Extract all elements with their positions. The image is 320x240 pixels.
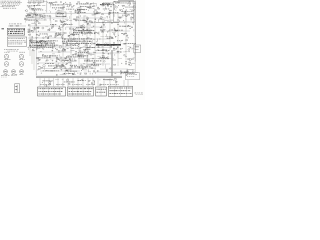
- wire: vertical trunk x30: [29, 24, 31, 56]
- wire: [37, 69, 39, 71]
- transistor Q29: [43, 37, 45, 39]
- label: 12V supply: [135, 93, 143, 95]
- junction node: [82, 28, 85, 31]
- value label: [75, 10, 77, 12]
- wire: [44, 67, 46, 70]
- junction node: [35, 37, 38, 40]
- resistor R2: [51, 2, 53, 5]
- reference label row: [109, 29, 116, 32]
- diode D2: [114, 1, 116, 2]
- wire: [62, 83, 64, 85]
- capacitor C48: [55, 61, 58, 62]
- reference label row: [104, 44, 115, 47]
- transistor Q51: [114, 78, 116, 80]
- wire: [58, 12, 61, 14]
- table: parts legend: [7, 37, 26, 46]
- wire: [36, 46, 38, 50]
- wire: [31, 37, 33, 39]
- junction node: [63, 60, 66, 63]
- resistor R22: [102, 13, 104, 16]
- transistor pinout Q3 (bottom view): [4, 59, 10, 66]
- wire: [66, 5, 68, 7]
- transistor Q17: [80, 26, 82, 28]
- wire: [27, 16, 31, 18]
- reference label row: [125, 42, 136, 45]
- resistor R63: [46, 59, 48, 62]
- wire: [32, 14, 34, 18]
- value label: [36, 21, 39, 23]
- value label: [128, 51, 130, 54]
- resistor R45: [102, 31, 104, 34]
- capacitor C26: [101, 30, 104, 31]
- label row: power section: [115, 2, 131, 5]
- value label: [55, 35, 58, 37]
- wire: [101, 46, 103, 48]
- wire: [131, 48, 133, 50]
- wire: [41, 15, 43, 17]
- resistor R59: [87, 58, 89, 61]
- wire: [95, 4, 97, 6]
- wire: [32, 39, 34, 42]
- junction node: [120, 73, 123, 76]
- wire: [84, 58, 88, 60]
- output terminal block: [134, 45, 141, 53]
- junction node: [122, 19, 125, 22]
- transistor Q34: [98, 44, 100, 46]
- transistor Q2: [121, 10, 123, 12]
- value label: [84, 19, 86, 22]
- junction node: [112, 79, 115, 82]
- wire: [133, 2, 136, 4]
- reference label row: [61, 23, 73, 26]
- wire: [66, 26, 106, 28]
- capacitor C4: [123, 5, 126, 6]
- component designator row: [52, 7, 63, 10]
- component designator row: [74, 66, 91, 69]
- wire: [49, 45, 51, 47]
- reference label row: [103, 2, 113, 5]
- reference label row: [100, 56, 108, 59]
- wire: [78, 53, 80, 56]
- switch box S1: [28, 14, 36, 20]
- wire: [92, 73, 94, 75]
- wire: [30, 31, 56, 33]
- wire: [78, 7, 82, 9]
- capacitor C10: [86, 19, 89, 20]
- component designator row: [29, 40, 58, 43]
- wire: [45, 60, 47, 62]
- diode D3: [129, 2, 131, 3]
- wire: [70, 3, 72, 5]
- wire: [99, 79, 101, 81]
- wire: [41, 39, 44, 41]
- transistor pinout Q2 (bottom view): [19, 52, 25, 59]
- transistor Q16: [82, 25, 84, 27]
- resistor R201: [33, 2, 35, 3]
- capacitor C6: [110, 6, 113, 7]
- resistor R30: [87, 17, 89, 20]
- resistor R67: [128, 58, 130, 61]
- value label: [111, 37, 114, 39]
- wire: [80, 47, 82, 49]
- wire: net to output: [108, 72, 138, 74]
- resistor R28: [118, 16, 120, 19]
- junction node: [82, 8, 85, 11]
- capacitor C8: [29, 15, 32, 16]
- transistor Q4: [38, 4, 40, 6]
- resistor R51: [87, 37, 89, 40]
- wire: [113, 48, 115, 51]
- junction node: [80, 64, 83, 67]
- value label: [71, 66, 73, 68]
- reference label row: [72, 40, 78, 43]
- capacitor C12: [94, 19, 97, 20]
- wire: [104, 64, 106, 68]
- wire: [50, 54, 52, 56]
- resistor R62: [64, 57, 66, 60]
- wire: [61, 45, 65, 47]
- wire: [125, 18, 127, 22]
- wire: [70, 46, 72, 48]
- value label: [108, 13, 111, 15]
- wire: [58, 10, 62, 12]
- value label: [40, 50, 42, 53]
- junction node: [113, 8, 116, 11]
- wire: [100, 35, 104, 37]
- value label: [69, 58, 71, 60]
- component designator row: [62, 40, 91, 43]
- wire: [123, 51, 127, 53]
- diode D27: [61, 67, 63, 68]
- diode D14: [114, 28, 116, 29]
- wire: [132, 2, 134, 4]
- component designator row: [73, 29, 94, 32]
- wire: [32, 35, 34, 37]
- value label: [103, 29, 105, 31]
- diode D13: [127, 26, 129, 27]
- resistor R8: [93, 5, 95, 8]
- resistor R36: [71, 33, 73, 36]
- wire: [68, 37, 70, 39]
- wire: [94, 51, 96, 53]
- value label: [99, 11, 101, 14]
- value label: [66, 44, 68, 46]
- wire: [83, 46, 87, 48]
- capacitor C39: [77, 44, 80, 45]
- wire: [60, 73, 63, 75]
- transistor Q43: [69, 68, 71, 70]
- value label: [80, 73, 82, 75]
- junction node: [82, 19, 85, 22]
- wire: [62, 78, 64, 86]
- value label: [60, 20, 63, 22]
- wire: [78, 58, 114, 60]
- transistor Q6: [77, 9, 79, 11]
- reference label row: [125, 6, 135, 9]
- junction node: [106, 56, 109, 59]
- transistor pinout Q1 (bottom view): [4, 52, 9, 59]
- junction node: [64, 38, 67, 41]
- wire: [74, 59, 77, 61]
- reference label row: [77, 8, 87, 11]
- junction node: [37, 30, 40, 33]
- wire: [133, 57, 135, 59]
- value label: [66, 19, 68, 22]
- resistor R31: [100, 18, 102, 21]
- wire: [70, 50, 74, 52]
- capacitor C15: [93, 33, 96, 34]
- junction node: [127, 24, 130, 27]
- transistor Q42: [124, 54, 126, 56]
- transistor pinout Q6 (bottom view): [12, 70, 18, 75]
- diode D16: [66, 43, 68, 44]
- diode D23: [79, 67, 81, 68]
- transistor Q24: [71, 39, 73, 41]
- wire: [93, 80, 95, 82]
- resistor R60: [57, 58, 59, 61]
- value label: [82, 68, 84, 70]
- wire: vertical trunk x36: [35, 13, 37, 76]
- wire: [58, 9, 60, 12]
- wire: [62, 73, 66, 75]
- value label: [62, 65, 64, 67]
- capacitor C65: [45, 85, 48, 86]
- wire: [79, 15, 81, 17]
- wire: [65, 27, 67, 30]
- value label: [63, 48, 65, 50]
- wire: [39, 15, 41, 19]
- wire: [82, 34, 84, 36]
- resistor R39: [48, 29, 50, 32]
- value label: [130, 19, 132, 22]
- wire: vertical trunk x47: [46, 1, 48, 13]
- capacitor C62: [119, 70, 122, 71]
- wire: [80, 47, 110, 49]
- component designator row: [50, 4, 64, 7]
- wire: [92, 79, 94, 81]
- reference label row: [34, 4, 41, 7]
- wire: [103, 20, 105, 23]
- resistor R32: [119, 16, 121, 19]
- junction node: [117, 4, 120, 7]
- reference label row: [34, 44, 42, 47]
- value label: [61, 21, 64, 23]
- wire: [77, 78, 79, 86]
- wire: [89, 41, 92, 43]
- reference label row: [98, 49, 109, 52]
- reference label row: [87, 46, 95, 49]
- capacitor C60: [125, 63, 128, 64]
- capacitor C63: [125, 74, 128, 75]
- wire: [72, 78, 74, 86]
- diode D30: [119, 10, 121, 11]
- wire: [33, 50, 35, 70]
- value label: [99, 38, 101, 41]
- reference label row: [37, 40, 46, 43]
- capacitor C18: [62, 25, 65, 26]
- value label: [27, 14, 29, 17]
- reference label row: [59, 59, 64, 62]
- value label: [131, 16, 133, 19]
- wire: [44, 10, 46, 11]
- reference label row: [62, 59, 71, 62]
- connector block CN3: [96, 87, 107, 96]
- wire: [31, 50, 33, 64]
- reference label row: [26, 19, 37, 22]
- transistor Q21: [35, 24, 37, 26]
- wire: [86, 61, 90, 63]
- resistor R5: [78, 1, 80, 4]
- diode D7: [26, 16, 28, 17]
- transistor Q1: [60, 1, 61, 2]
- wire: [49, 17, 51, 21]
- wire: [92, 43, 95, 45]
- resistor R10: [60, 7, 62, 10]
- wire: power box top rail: [118, 0, 134, 2]
- wire: [40, 68, 96, 70]
- resistor R24: [94, 13, 96, 16]
- junction node: [120, 62, 123, 65]
- wire: [88, 24, 91, 26]
- value label: [115, 72, 117, 75]
- wire: [134, 36, 137, 38]
- junction node: [83, 40, 86, 43]
- wire: [80, 63, 110, 65]
- reference label row: [28, 16, 33, 19]
- capacitor C57: [105, 69, 108, 70]
- wire: [38, 51, 72, 53]
- wire: [134, 43, 135, 45]
- connector pin label row: [56, 83, 65, 86]
- wire: [85, 3, 88, 5]
- reference label row: [107, 37, 114, 40]
- value label: [107, 31, 108, 34]
- diode D6: [33, 15, 35, 16]
- wire: [42, 5, 46, 7]
- wire: [44, 40, 47, 42]
- wire: [76, 9, 78, 12]
- capacitor C51: [56, 57, 59, 58]
- capacitor C53: [107, 53, 110, 54]
- wire: [133, 29, 135, 31]
- junction node: [96, 42, 99, 45]
- capacitor C64: [128, 64, 131, 65]
- wire: [61, 11, 63, 13]
- resistor R48: [45, 42, 47, 45]
- capacitor C7: [129, 3, 132, 4]
- wire: vertical trunk x79: [78, 14, 80, 69]
- wire: [118, 35, 120, 36]
- wire: [82, 3, 85, 5]
- transistor Q53: [115, 6, 117, 8]
- reference label row: [93, 11, 98, 14]
- capacitor C47: [87, 51, 90, 52]
- wire: right inner vertical: [132, 1, 134, 25]
- capacitor C3: [78, 11, 81, 12]
- component designator row: [80, 5, 94, 8]
- wire: [104, 10, 106, 11]
- wire: [132, 73, 135, 75]
- wire: [120, 17, 123, 19]
- value label: [73, 28, 76, 30]
- value label: [96, 41, 98, 44]
- wire: [110, 19, 114, 21]
- transistor Q33: [73, 38, 75, 40]
- wire: [83, 9, 85, 11]
- value label: [128, 13, 130, 16]
- transistor Q9: [34, 22, 36, 24]
- wire: [70, 38, 110, 40]
- wire: [130, 8, 132, 10]
- wire: [87, 64, 91, 66]
- wire: [31, 15, 35, 17]
- resistor R42: [84, 32, 86, 35]
- reference label row: [56, 15, 66, 18]
- wire: [90, 53, 92, 56]
- reference label row: [72, 54, 82, 57]
- reference label row: [100, 4, 109, 7]
- wire: [28, 48, 30, 50]
- resistor R15: [32, 9, 34, 12]
- resistor R52: [30, 45, 32, 48]
- wire: [82, 38, 85, 40]
- wire: [35, 36, 38, 38]
- junction node: [61, 34, 64, 37]
- value label: [34, 12, 36, 14]
- resistor R6: [28, 6, 30, 9]
- value label: [69, 3, 70, 5]
- junction node: [80, 69, 83, 72]
- wire: [87, 69, 89, 72]
- transistor Q8: [62, 8, 64, 10]
- resistor R41: [90, 29, 92, 32]
- capacitor C28: [131, 27, 134, 28]
- transistor Q36: [105, 43, 107, 45]
- junction node: [36, 13, 39, 16]
- resistor R17: [94, 9, 96, 12]
- wire: [105, 6, 107, 9]
- reference label row: [75, 11, 86, 14]
- connector block CN4 (power): [109, 86, 133, 96]
- reference label row: [64, 81, 75, 84]
- wire: [49, 46, 51, 48]
- wire: [40, 70, 80, 72]
- capacitor C22: [56, 35, 59, 36]
- capacitor C5: [97, 7, 100, 8]
- reference label row: [122, 10, 132, 13]
- wire: [73, 40, 77, 42]
- transistor Q30: [52, 46, 54, 48]
- transistor Q37: [113, 49, 115, 51]
- resistor R202: [38, 2, 40, 3]
- transistor Q11: [75, 19, 77, 21]
- value label: [28, 31, 30, 34]
- reference label row: [105, 79, 112, 82]
- value label: [55, 8, 56, 11]
- wire: [88, 47, 90, 49]
- wire: [65, 43, 67, 47]
- resistor R18: [55, 20, 57, 23]
- component designator row: [30, 46, 53, 49]
- reference label row: [58, 50, 66, 53]
- reference label row: [72, 44, 77, 47]
- junction node: [46, 69, 49, 72]
- value label: [74, 59, 76, 62]
- wire: [57, 78, 59, 86]
- wire: [76, 7, 78, 9]
- component designator row: [42, 55, 58, 58]
- resistor R40: [50, 35, 52, 38]
